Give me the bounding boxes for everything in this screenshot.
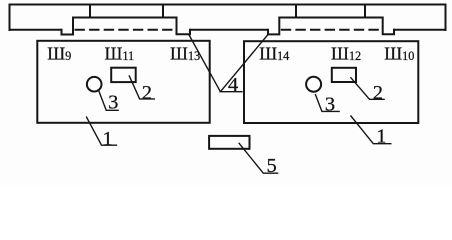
leader line label 4 from right block connector bbox=[220, 35, 268, 92]
panel right cutout with side mounting tabs bbox=[268, 18, 394, 35]
solid joint line between blocks bbox=[190, 29, 268, 31]
svg-text:Ш12: Ш12 bbox=[331, 43, 361, 63]
svg-text:3: 3 bbox=[325, 93, 335, 115]
lamp 3 (left block circle) bbox=[87, 77, 102, 92]
svg-text:1: 1 bbox=[103, 128, 113, 150]
panel left cutout with side mounting tabs bbox=[62, 18, 191, 35]
dashed joint line in left cutout bbox=[75, 29, 177, 31]
leader line label 1 right bbox=[351, 116, 392, 144]
svg-text:3: 3 bbox=[108, 92, 118, 114]
block 1 (right) bbox=[244, 41, 418, 123]
lamp 3 (right block circle) bbox=[306, 77, 321, 92]
left cutout inner vertical a bbox=[89, 5, 91, 18]
leader line label 2 left bbox=[129, 75, 155, 99]
leader line label 2 right bbox=[350, 77, 384, 99]
block 1 (left) bbox=[37, 41, 209, 123]
svg-text:4: 4 bbox=[228, 74, 238, 96]
svg-text:Ш9: Ш9 bbox=[47, 43, 71, 63]
svg-text:Ш11: Ш11 bbox=[105, 43, 135, 63]
leader line label 4 from left block connector bbox=[189, 35, 221, 92]
element 2 (left block rectangle) bbox=[111, 68, 136, 82]
leader line label 1 left bbox=[86, 117, 117, 146]
panel top bar outline bbox=[10, 5, 446, 31]
svg-text:1: 1 bbox=[376, 126, 386, 148]
dashed joint line in right cutout bbox=[281, 29, 382, 31]
right cutout inner vertical a bbox=[295, 5, 297, 18]
svg-text:2: 2 bbox=[142, 82, 152, 104]
svg-text:2: 2 bbox=[373, 82, 383, 104]
leader line label 3 right bbox=[315, 94, 340, 111]
svg-text:5: 5 bbox=[267, 155, 277, 177]
leader line label 3 left bbox=[98, 90, 119, 111]
leader line label 5 bbox=[239, 143, 279, 173]
svg-text:Ш10: Ш10 bbox=[384, 43, 414, 63]
svg-text:Ш14: Ш14 bbox=[259, 43, 289, 63]
right cutout inner vertical b bbox=[364, 5, 366, 18]
element 2 (right block rectangle) bbox=[332, 68, 356, 82]
unit 5 (bottom rectangle) bbox=[209, 136, 249, 149]
left cutout inner vertical b bbox=[162, 5, 164, 18]
